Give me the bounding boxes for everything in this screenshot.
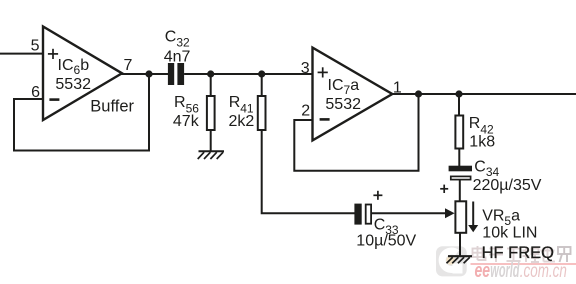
- watermark eeworld text: [475, 260, 567, 282]
- capacitor C33: [354, 204, 371, 225]
- potentiometer VR5a body: [455, 201, 466, 233]
- watermark chinese char dian: [473, 246, 486, 260]
- svg-text:C32: C32: [165, 29, 190, 50]
- wire R42 to C34: [458, 149, 460, 168]
- junction node R42: [455, 90, 462, 97]
- pot direction arrow: [472, 202, 474, 227]
- wire main to IC7a pin3: [184, 73, 312, 75]
- svg-text:3: 3: [301, 60, 310, 77]
- watermark chinese char zi: [489, 249, 503, 263]
- svg-text:1k8: 1k8: [469, 134, 495, 151]
- capacitor C34: [449, 166, 472, 180]
- capacitor C32: [168, 63, 184, 85]
- resistor R42 body: [455, 116, 463, 149]
- watermark logo square: [436, 246, 467, 276]
- watermark underline: [471, 263, 576, 265]
- wire pot to ground: [459, 233, 461, 257]
- plus sign C33: [373, 191, 382, 200]
- wire pin7 output: [121, 73, 168, 75]
- svg-text:4n7: 4n7: [164, 49, 191, 66]
- op-amp IC6b: [43, 27, 122, 121]
- svg-text:.com.cn: .com.cn: [520, 261, 567, 282]
- junction node feedback: [415, 90, 422, 97]
- plus sign C34: [440, 185, 448, 193]
- svg-text:5532: 5532: [325, 96, 361, 113]
- svg-text:2: 2: [301, 103, 310, 120]
- wire R42 top: [458, 94, 460, 116]
- op-amp IC7a: [313, 48, 393, 141]
- svg-text:5: 5: [31, 38, 40, 55]
- watermark chinese char cheng: [523, 247, 540, 262]
- wire R41 down to C33 rail: [262, 130, 355, 213]
- resistor R56 body: [207, 96, 215, 130]
- svg-text:1: 1: [393, 79, 402, 96]
- wire R41 top: [261, 74, 263, 96]
- svg-text:10µ/50V: 10µ/50V: [356, 233, 416, 250]
- svg-text:world: world: [490, 260, 520, 282]
- svg-text:10k LIN: 10k LIN: [482, 224, 537, 241]
- junction node R56: [207, 70, 214, 77]
- junction node after pin7: [145, 70, 152, 77]
- junction node R41: [258, 70, 265, 77]
- svg-text:47k: 47k: [173, 113, 200, 130]
- wire pin2 and feedback loop IC7a: [294, 94, 418, 171]
- svg-text:HF FREQ: HF FREQ: [482, 244, 555, 262]
- ground under R56: [198, 151, 224, 159]
- wire R56 bottom: [210, 130, 212, 151]
- wire C34 to pot: [459, 180, 461, 203]
- svg-text:7: 7: [124, 57, 133, 74]
- ground under pot: [447, 256, 473, 263]
- wiper wire and arrow: [372, 212, 446, 214]
- watermark logo dot: [446, 256, 455, 265]
- watermark chinese char jie: [558, 247, 571, 262]
- wire R56 top: [210, 74, 212, 96]
- svg-text:2k2: 2k2: [229, 113, 255, 130]
- wire pin6 and feedback loop IC6b: [14, 74, 149, 151]
- resistor R41 body: [258, 96, 266, 130]
- svg-text:220µ/35V: 220µ/35V: [473, 177, 542, 194]
- watermark chinese char gong: [507, 249, 521, 262]
- svg-text:ee: ee: [475, 260, 491, 282]
- svg-text:5532: 5532: [55, 76, 91, 93]
- watermark logo C shape: [442, 251, 457, 269]
- watermark chinese char shi: [541, 246, 556, 262]
- wire pin5 input: [0, 53, 43, 55]
- svg-text:Buffer: Buffer: [90, 98, 134, 116]
- wire output IC7a: [391, 93, 576, 95]
